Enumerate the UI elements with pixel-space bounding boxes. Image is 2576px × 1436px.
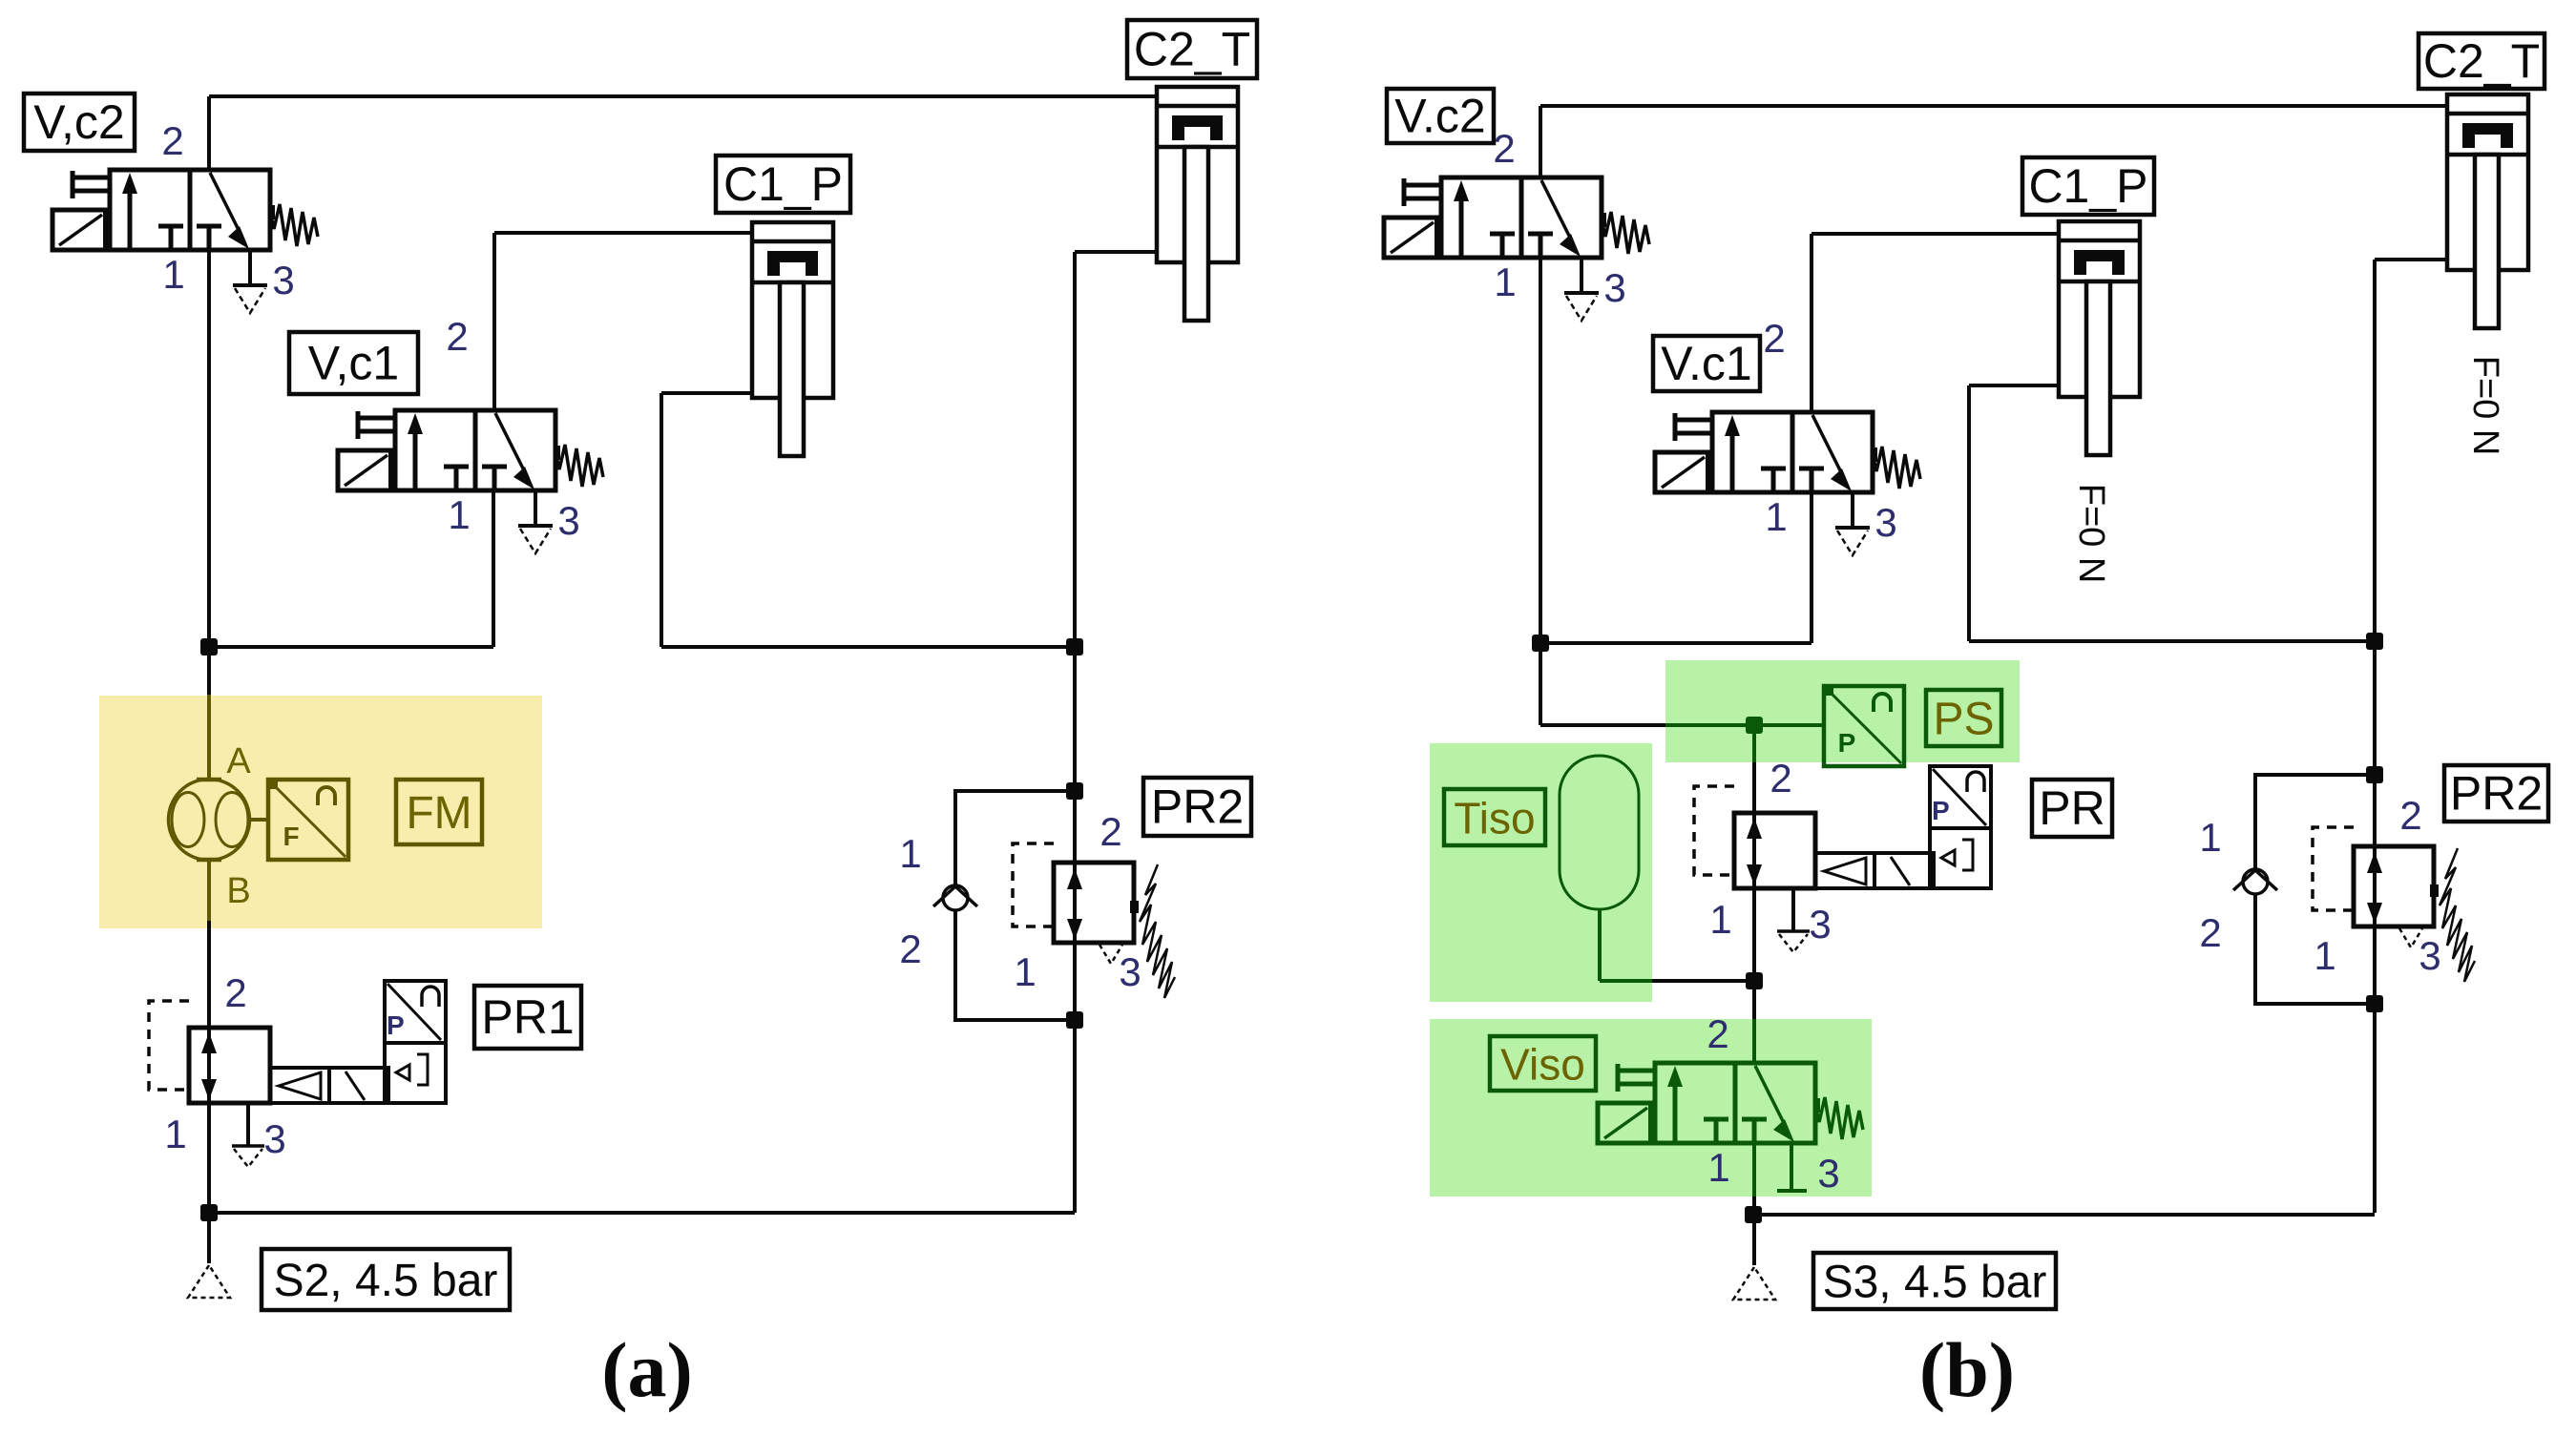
svg-text:1: 1 (1765, 494, 1787, 539)
svg-text:C1_P: C1_P (2028, 159, 2147, 213)
svg-text:Viso: Viso (1500, 1040, 1585, 1090)
svg-text:2: 2 (1707, 1011, 1728, 1056)
svg-text:FM: FM (406, 788, 471, 839)
svg-text:3: 3 (1119, 949, 1141, 994)
svg-text:F=0 N: F=0 N (2071, 484, 2111, 584)
svg-text:2: 2 (161, 118, 183, 163)
svg-text:P: P (1838, 728, 1856, 758)
svg-text:1: 1 (2314, 933, 2335, 978)
svg-text:3: 3 (1809, 902, 1831, 947)
svg-text:PS: PS (1933, 695, 1994, 745)
svg-text:C2_T: C2_T (1134, 23, 1250, 76)
svg-text:V,c1: V,c1 (308, 337, 399, 390)
svg-text:3: 3 (1817, 1151, 1839, 1196)
svg-text:2: 2 (224, 970, 246, 1015)
svg-text:B: B (226, 871, 250, 911)
svg-text:1: 1 (1014, 949, 1036, 994)
svg-text:3: 3 (263, 1116, 285, 1161)
svg-text:2: 2 (2399, 793, 2421, 838)
svg-text:F=0 N: F=0 N (2465, 356, 2505, 456)
svg-text:C1_P: C1_P (723, 157, 843, 211)
svg-text:3: 3 (557, 498, 579, 543)
svg-text:1: 1 (1709, 897, 1731, 942)
svg-text:(b): (b) (1919, 1326, 2015, 1413)
svg-text:1: 1 (1707, 1145, 1729, 1190)
svg-text:A: A (226, 741, 251, 781)
svg-text:1: 1 (162, 252, 184, 297)
svg-text:Tiso: Tiso (1454, 794, 1535, 843)
svg-text:S3, 4.5 bar: S3, 4.5 bar (1823, 1258, 2047, 1308)
svg-text:V.c2: V.c2 (1394, 90, 1485, 143)
svg-text:PR2: PR2 (1151, 780, 1244, 834)
svg-text:2: 2 (1770, 756, 1791, 801)
svg-text:PR2: PR2 (2450, 767, 2543, 821)
svg-text:(a): (a) (601, 1326, 693, 1413)
svg-text:V,c2: V,c2 (33, 95, 124, 149)
svg-text:2: 2 (1493, 126, 1515, 171)
svg-text:1: 1 (164, 1112, 186, 1156)
svg-text:2: 2 (2199, 910, 2221, 955)
svg-text:1: 1 (2199, 815, 2221, 860)
svg-text:2: 2 (899, 926, 921, 971)
svg-text:PR1: PR1 (481, 990, 574, 1044)
svg-text:3: 3 (1874, 500, 1896, 545)
svg-text:S2, 4.5 bar: S2, 4.5 bar (274, 1256, 498, 1306)
svg-text:3: 3 (2419, 933, 2440, 978)
svg-text:C2_T: C2_T (2423, 34, 2540, 88)
svg-text:F: F (283, 822, 299, 851)
svg-text:1: 1 (448, 492, 470, 537)
svg-text:2: 2 (446, 314, 468, 359)
svg-text:3: 3 (272, 258, 294, 302)
svg-text:2: 2 (1100, 809, 1121, 854)
svg-text:1: 1 (899, 831, 921, 876)
svg-text:3: 3 (1603, 265, 1625, 310)
svg-text:V.c1: V.c1 (1661, 337, 1751, 390)
svg-text:PR: PR (2039, 781, 2105, 835)
svg-text:2: 2 (1763, 316, 1785, 361)
svg-text:1: 1 (1494, 260, 1516, 304)
